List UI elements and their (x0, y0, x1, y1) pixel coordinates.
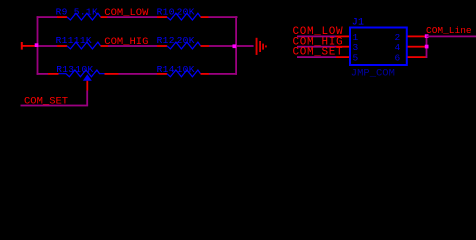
svg-text:R13: R13 (56, 64, 74, 75)
ground (256, 38, 267, 55)
svg-text:R11: R11 (56, 35, 74, 46)
svg-text:5: 5 (353, 52, 359, 63)
wire mid row mid (108, 45, 157, 47)
wire top row right (209, 16, 238, 18)
svg-text:R12: R12 (157, 35, 175, 46)
svg-text:COM_SET: COM_SET (293, 47, 344, 59)
svg-text:6: 6 (395, 52, 401, 63)
svg-text:COM_SET: COM_SET (24, 95, 68, 107)
pin lead (201, 45, 210, 47)
pin lead (157, 45, 167, 47)
resistor R12 (157, 35, 209, 49)
pin lead (201, 16, 209, 18)
terminal lead (22, 45, 36, 47)
wire COM_Line out (427, 36, 476, 38)
zigzag body (67, 13, 101, 20)
svg-text:R9: R9 (56, 6, 68, 17)
wire right vertical bus (426, 36, 428, 59)
wire mid row right (209, 45, 236, 47)
ground bar 1 (256, 38, 258, 55)
svg-text:COM_LOW: COM_LOW (104, 7, 149, 19)
ground bar 2 (259, 41, 261, 52)
svg-text:COM_Line: COM_Line (426, 25, 472, 36)
zigzag body (167, 70, 201, 77)
wire top row left (37, 16, 58, 18)
pin lead (101, 16, 108, 18)
zigzag body (167, 13, 201, 20)
svg-text:J1: J1 (352, 17, 364, 28)
wiper arrow (83, 74, 92, 80)
svg-text:10K: 10K (75, 64, 93, 75)
wire left rail (37, 16, 39, 75)
pin lead (101, 45, 109, 47)
pin 2 lead (408, 36, 427, 38)
wire right rail (235, 16, 237, 75)
node junction right mid (233, 44, 237, 48)
resistor R14 (157, 64, 209, 77)
svg-text:JMP_COM: JMP_COM (351, 68, 395, 80)
node junction left mid (35, 43, 39, 47)
wire wiper down (86, 91, 88, 106)
pin lead (201, 73, 210, 75)
resistor R11 (56, 35, 109, 49)
resistor R9 (56, 6, 108, 20)
node junction pin4 (425, 45, 429, 49)
ground bar 4 (265, 45, 267, 47)
svg-text:5.1K: 5.1K (74, 6, 98, 17)
pin lead (157, 73, 167, 75)
svg-text:R14: R14 (157, 64, 175, 75)
pin lead (57, 45, 67, 47)
svg-text:10K: 10K (177, 64, 195, 75)
resistor R10 (157, 6, 209, 20)
pin 1 lead (336, 36, 349, 38)
pin 3 lead (336, 46, 349, 48)
node junction pin2 (425, 34, 429, 38)
zigzag body (67, 42, 101, 49)
wire top row mid (107, 16, 157, 18)
pin 6 lead (408, 56, 427, 58)
wire to ground (237, 45, 254, 47)
ground bar 3 (262, 44, 264, 50)
pin terminal left (T-bar) (21, 42, 35, 50)
wire bot row right (209, 73, 237, 75)
pin lead (157, 16, 167, 18)
pin 5 lead (336, 56, 349, 58)
svg-text:11K: 11K (74, 35, 92, 46)
svg-text:20K: 20K (177, 6, 195, 17)
wire label COM_HIG to pin3 (297, 46, 336, 48)
wire bot row mid (119, 73, 158, 75)
wiper pin lead (86, 81, 88, 91)
zigzag body (167, 42, 201, 49)
svg-text:20K: 20K (177, 35, 195, 46)
connector J1 box (350, 28, 407, 66)
zigzag body (59, 70, 106, 77)
wire bot row left (37, 73, 48, 75)
wire bottom horizontal (21, 105, 89, 107)
wire mid row left (38, 45, 57, 47)
pin 4 lead (408, 46, 427, 48)
svg-text:R10: R10 (157, 6, 175, 17)
svg-text:COM_HIG: COM_HIG (104, 36, 148, 48)
terminal bar (21, 42, 23, 50)
pin lead (48, 73, 59, 75)
pin lead (57, 16, 67, 18)
pin lead R13 right (105, 73, 119, 75)
wire label COM_SET to pin5 (297, 56, 336, 58)
potentiometer R13 (48, 64, 105, 91)
wire label COM_LOW to pin1 (297, 36, 336, 38)
